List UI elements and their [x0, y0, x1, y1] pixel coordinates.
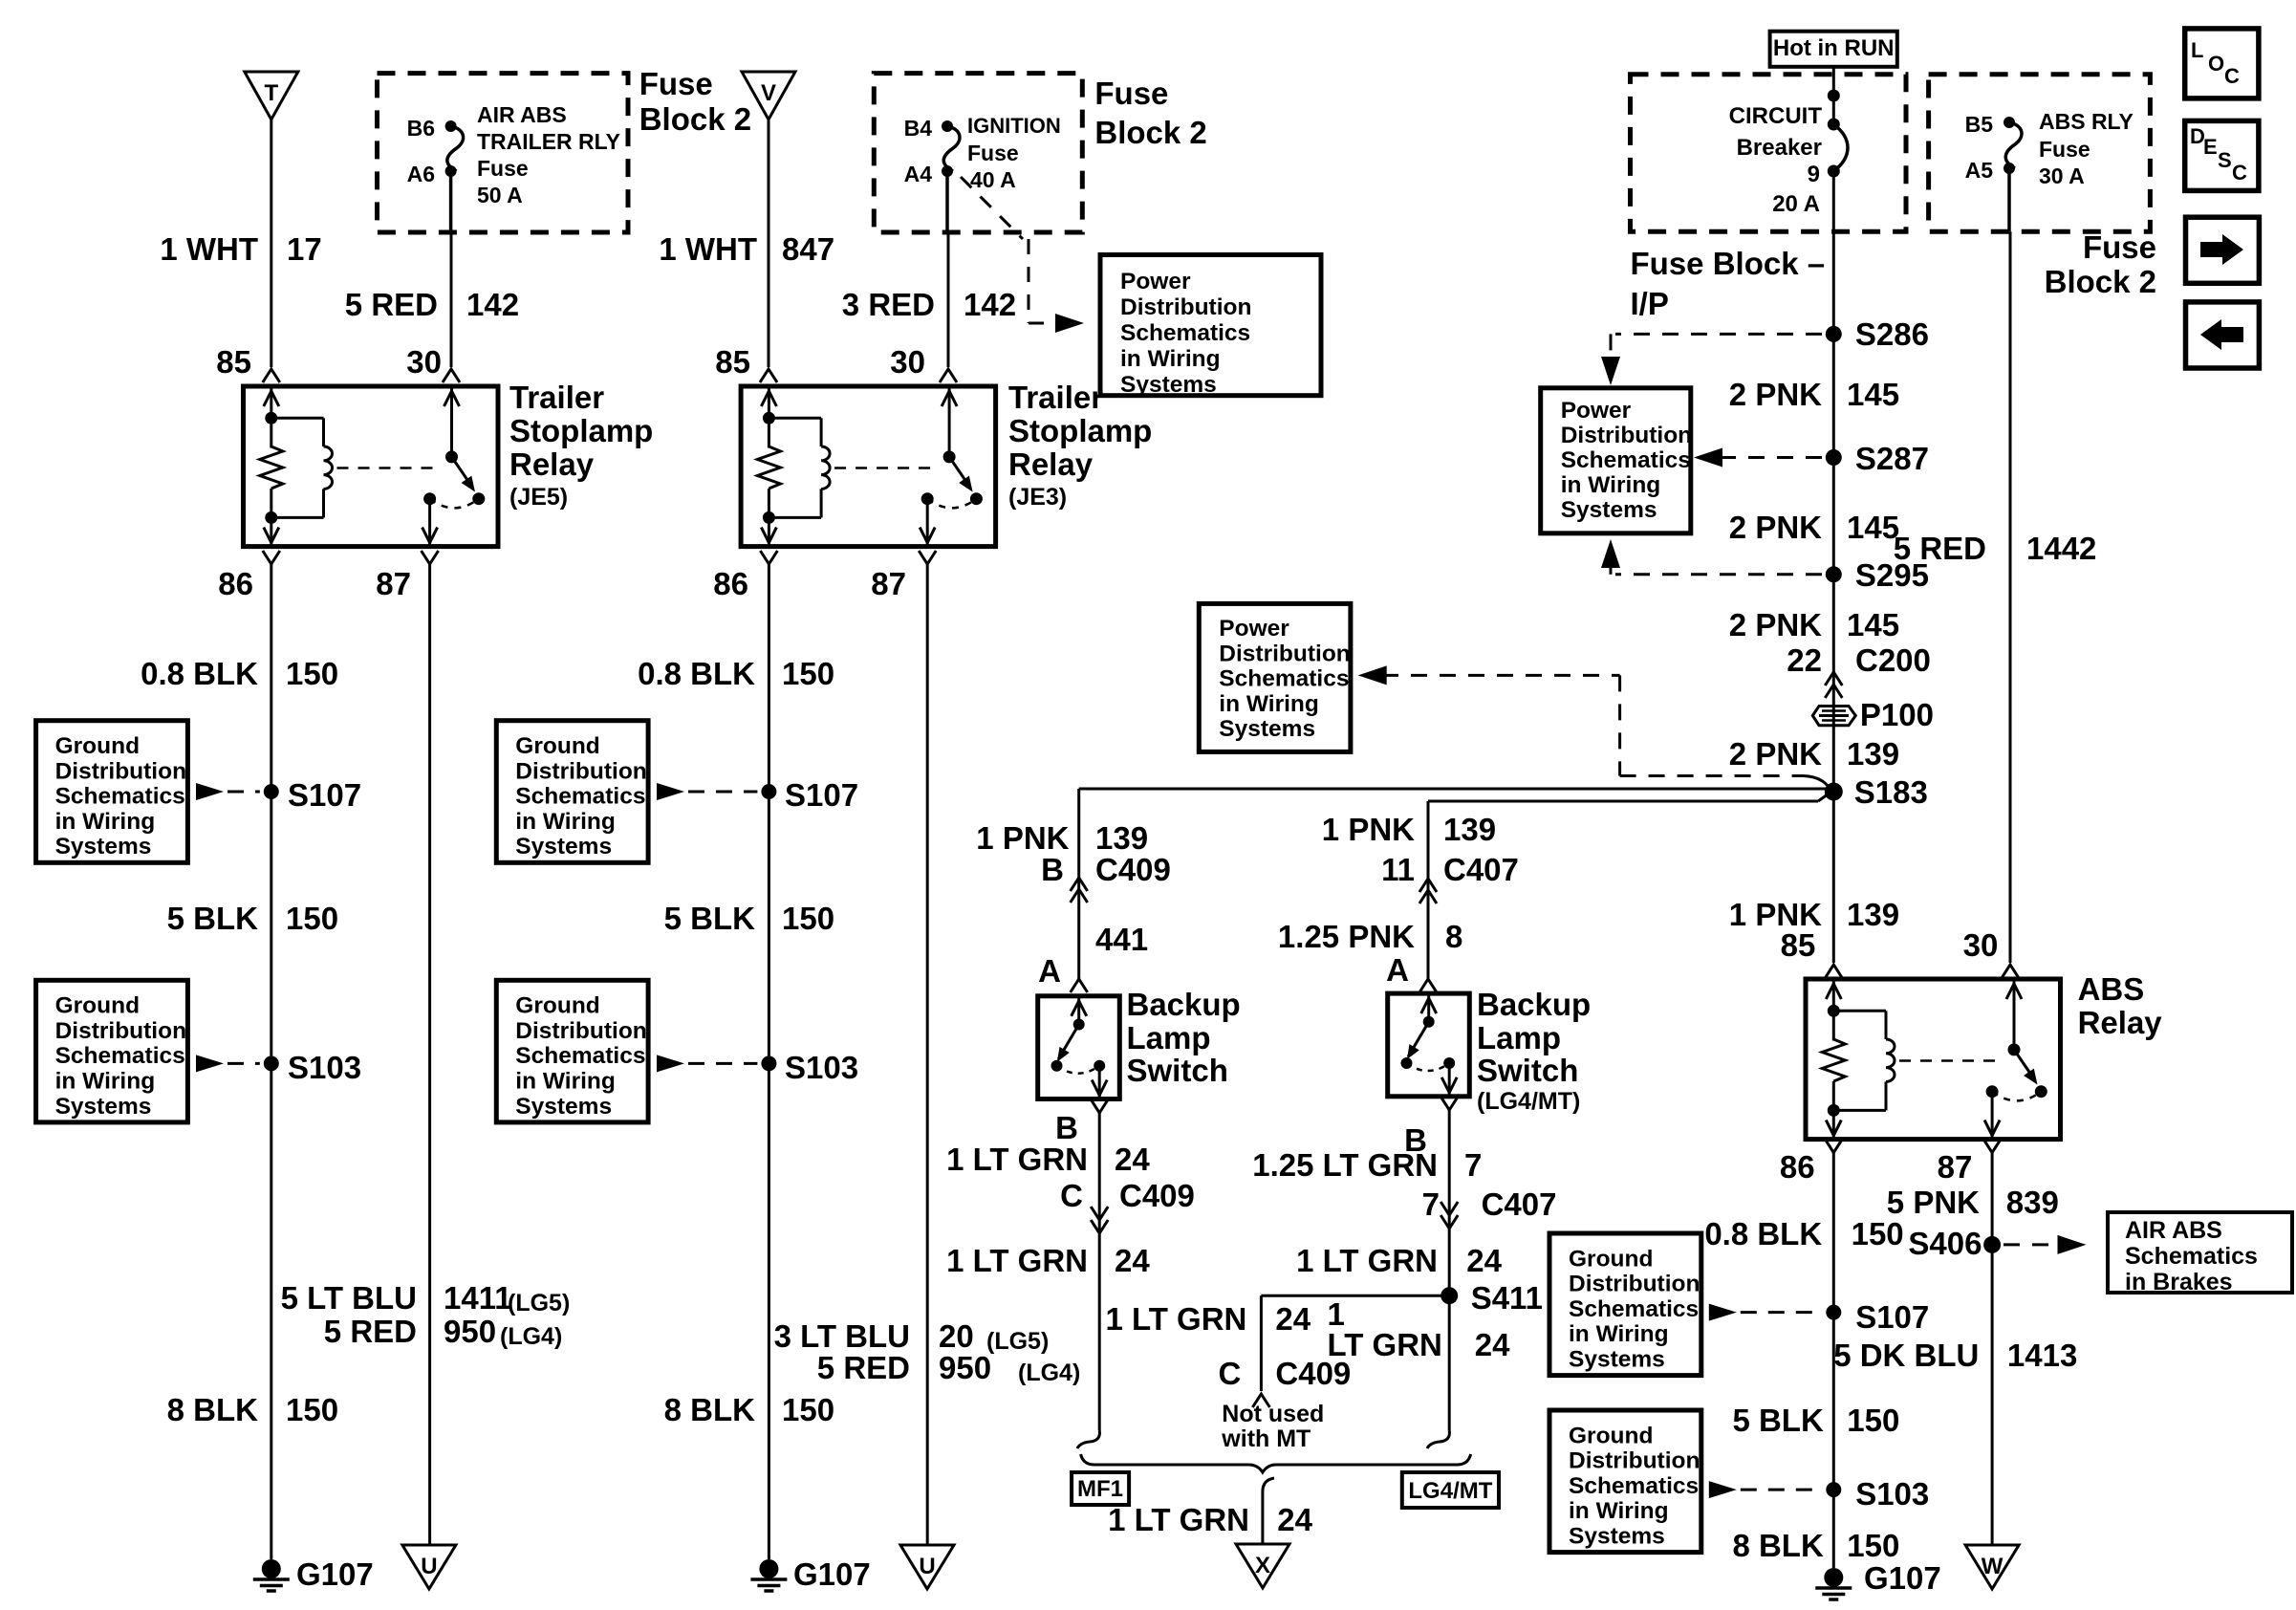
grommet P100 — [1812, 697, 1934, 732]
label Backup Lamp Switch 2 — [1477, 987, 1591, 1115]
label Backup Lamp Switch 1 — [1127, 987, 1241, 1088]
wire ABS pin87 to W — [1983, 1140, 2001, 1544]
svg-text:U: U — [421, 1554, 437, 1579]
svg-text:1.25 LT GRN: 1.25 LT GRN — [1252, 1147, 1438, 1183]
svg-text:(LG4): (LG4) — [500, 1323, 562, 1350]
svg-text:Schematics: Schematics — [1219, 666, 1349, 692]
svg-text:Block 2: Block 2 — [2045, 264, 2156, 299]
wire S411 branch to C409 — [1252, 1295, 1449, 1407]
svg-text:142: 142 — [466, 287, 519, 322]
label 7 C407 — [1422, 1186, 1557, 1222]
dashed ref from ignition fuse — [961, 177, 1084, 333]
fuse AIR ABS TRAILER RLY 50A — [407, 102, 620, 207]
label 0.8 BLK 150 col3 — [638, 656, 834, 691]
svg-text:P100: P100 — [1860, 697, 1934, 732]
svg-text:9: 9 — [1808, 162, 1820, 187]
svg-text:5 LT BLU: 5 LT BLU — [281, 1280, 417, 1316]
label 2 PNK 139 — [1729, 736, 1899, 772]
svg-text:Fuse: Fuse — [639, 66, 713, 101]
label 1.25 LT GRN 7 — [1252, 1147, 1482, 1183]
svg-text:139: 139 — [1847, 736, 1899, 772]
fuse block IP dashed box — [1631, 75, 1907, 232]
svg-text:Fuse: Fuse — [2083, 229, 2156, 265]
label 22 C200 — [1787, 642, 1931, 678]
wire S183 branch to backup switch 1 — [1079, 789, 1830, 979]
label 2 PNK 145 a — [1729, 377, 1899, 412]
connector U left — [402, 1545, 456, 1589]
svg-text:2 PNK: 2 PNK — [1729, 736, 1822, 772]
label 1 LT GRN 24 bls1 lower — [946, 1243, 1150, 1278]
label 30 relay2 — [890, 344, 925, 380]
label B bls2 out — [1404, 1122, 1427, 1158]
svg-text:139: 139 — [1095, 820, 1148, 856]
legend box LOC — [2185, 29, 2259, 98]
svg-text:X: X — [1255, 1553, 1270, 1578]
label 5 RED 1442 — [1894, 531, 2097, 566]
wire relay2 pin86 to G107 — [760, 551, 777, 1559]
svg-text:Breaker: Breaker — [1737, 135, 1822, 161]
svg-text:Schematics: Schematics — [1561, 447, 1691, 473]
label box LG4/MT — [1402, 1472, 1499, 1508]
svg-text:Lamp: Lamp — [1127, 1020, 1211, 1055]
wire ABS fuse to ABS relay pin30 — [2002, 168, 2019, 978]
label 1 PNK 139 right — [1729, 897, 1899, 932]
node S107 col1 — [264, 777, 361, 813]
svg-text:LG4/MT: LG4/MT — [1408, 1478, 1492, 1504]
svg-text:in Wiring: in Wiring — [55, 1069, 156, 1095]
svg-text:AIR ABS: AIR ABS — [477, 102, 567, 127]
label 5 DK BLU 1413 — [1833, 1338, 2077, 1373]
svg-text:1 LT GRN: 1 LT GRN — [1108, 1502, 1249, 1537]
label B C409 bls1 — [1041, 852, 1171, 887]
wire relay2 pin87 to U — [919, 551, 936, 1544]
svg-text:C: C — [1219, 1356, 1242, 1391]
svg-text:L: L — [2191, 38, 2203, 62]
label 2 PNK 145 c — [1729, 607, 1899, 642]
svg-text:Power: Power — [1120, 269, 1191, 294]
svg-text:87: 87 — [871, 566, 906, 601]
label 3 LT BLU 20 LG5 — [774, 1318, 1050, 1355]
svg-text:(LG4): (LG4) — [1018, 1360, 1080, 1386]
node S107 col3 — [761, 777, 858, 813]
svg-text:Schematics: Schematics — [1120, 320, 1250, 346]
svg-text:30: 30 — [890, 344, 925, 380]
svg-text:1413: 1413 — [2007, 1338, 2077, 1373]
fuse block 2 dashed box (mid) — [874, 74, 1082, 232]
svg-text:(LG4/MT): (LG4/MT) — [1477, 1088, 1580, 1115]
svg-text:Ground: Ground — [515, 993, 599, 1019]
svg-text:Stoplamp: Stoplamp — [509, 413, 653, 448]
svg-text:150: 150 — [286, 656, 338, 691]
svg-text:A: A — [1386, 952, 1409, 988]
svg-text:950: 950 — [939, 1350, 991, 1385]
svg-text:87: 87 — [1938, 1149, 1973, 1185]
circuit breaker 9 20A — [1828, 90, 1848, 178]
svg-text:Backup: Backup — [1127, 987, 1241, 1022]
label 1 WHT 847 — [659, 231, 834, 267]
svg-text:Fuse Block –: Fuse Block – — [1631, 246, 1826, 281]
svg-text:S103: S103 — [1855, 1476, 1929, 1512]
wire below backup switch 2 — [1427, 1097, 1458, 1448]
label 8 BLK 150 right — [1732, 1528, 1899, 1563]
svg-text:8 BLK: 8 BLK — [664, 1392, 756, 1427]
svg-text:O: O — [2208, 52, 2224, 76]
svg-text:C: C — [1060, 1178, 1083, 1213]
label box MF1 — [1072, 1472, 1129, 1505]
svg-text:30: 30 — [406, 344, 442, 380]
node S287 — [1826, 441, 1929, 476]
svg-text:ABS RLY: ABS RLY — [2039, 109, 2134, 134]
svg-text:Stoplamp: Stoplamp — [1008, 413, 1152, 448]
ground distribution box 3 — [496, 721, 757, 863]
svg-text:Relay: Relay — [2078, 1005, 2163, 1040]
svg-text:24: 24 — [1275, 1301, 1310, 1337]
svg-text:Not used: Not used — [1222, 1401, 1324, 1427]
svg-text:8 BLK: 8 BLK — [167, 1392, 259, 1427]
svg-text:24: 24 — [1115, 1142, 1150, 1177]
svg-text:441: 441 — [1095, 922, 1148, 957]
label C C409 bls1 — [1060, 1178, 1195, 1213]
wire below backup switch 1 — [1077, 1099, 1108, 1448]
label 86 relay2 — [713, 566, 748, 601]
svg-text:150: 150 — [782, 656, 834, 691]
svg-text:20 A: 20 A — [1772, 191, 1820, 217]
svg-text:A: A — [1038, 953, 1061, 989]
svg-text:Schematics: Schematics — [1569, 1296, 1699, 1322]
svg-text:(JE3): (JE3) — [1008, 484, 1067, 511]
svg-text:G107: G107 — [1864, 1560, 1941, 1596]
svg-text:1 LT GRN: 1 LT GRN — [1296, 1243, 1438, 1278]
svg-text:T: T — [264, 80, 278, 106]
dashed ref S287 — [1694, 448, 1822, 468]
svg-text:22: 22 — [1787, 642, 1822, 678]
svg-text:0.8 BLK: 0.8 BLK — [141, 656, 258, 691]
svg-text:839: 839 — [2006, 1185, 2059, 1220]
svg-text:S183: S183 — [1854, 774, 1928, 810]
label 5 RED 950 LG4 mid — [817, 1350, 1080, 1386]
connector C409 C inline — [1091, 1207, 1108, 1233]
svg-text:in Wiring: in Wiring — [1569, 1498, 1669, 1524]
connector C407 11 inline — [1419, 879, 1437, 903]
svg-text:S: S — [2218, 148, 2232, 172]
label 1 LT GRN 24 bls2 — [1296, 1243, 1503, 1278]
label 30 ABS — [1963, 927, 1999, 963]
svg-text:8: 8 — [1445, 919, 1462, 954]
ground distribution box 4 — [496, 980, 757, 1122]
label Trailer Stoplamp Relay JE5 — [509, 380, 653, 511]
svg-text:S411: S411 — [1471, 1280, 1543, 1316]
node S286 — [1826, 316, 1929, 352]
svg-text:ABS: ABS — [2078, 971, 2145, 1007]
label 5 BLK 150 col3 — [664, 901, 834, 936]
svg-text:in Wiring: in Wiring — [55, 809, 156, 835]
svg-text:C200: C200 — [1855, 642, 1931, 678]
svg-text:1 WHT: 1 WHT — [659, 231, 757, 267]
svg-text:1 WHT: 1 WHT — [160, 231, 258, 267]
svg-text:A5: A5 — [1965, 158, 1994, 183]
backup lamp switch 1 — [1038, 996, 1120, 1099]
label A bls2 — [1386, 952, 1409, 988]
svg-text:5 DK BLU: 5 DK BLU — [1833, 1338, 1979, 1373]
label 5 RED 142 — [345, 287, 519, 322]
label 1.25 PNK 8 — [1278, 919, 1462, 954]
label CIRCUIT Breaker — [1729, 103, 1823, 217]
wire T to relay pin 85 — [263, 120, 280, 382]
svg-text:Systems: Systems — [1561, 497, 1657, 523]
svg-text:30 A: 30 A — [2039, 163, 2085, 188]
svg-text:0.8 BLK: 0.8 BLK — [1704, 1216, 1822, 1251]
svg-text:86: 86 — [713, 566, 748, 601]
svg-text:7: 7 — [1464, 1147, 1482, 1183]
svg-text:S406: S406 — [1908, 1226, 1982, 1261]
svg-text:in Wiring: in Wiring — [1120, 346, 1221, 372]
svg-text:1 PNK: 1 PNK — [1322, 812, 1415, 847]
svg-text:S103: S103 — [288, 1050, 361, 1085]
svg-text:87: 87 — [376, 566, 411, 601]
svg-text:Systems: Systems — [1569, 1347, 1665, 1373]
svg-text:MF1: MF1 — [1077, 1476, 1123, 1502]
svg-text:Distribution: Distribution — [515, 758, 646, 784]
svg-text:S107: S107 — [1855, 1299, 1929, 1335]
svg-text:B5: B5 — [1965, 112, 1994, 137]
svg-text:1411: 1411 — [444, 1280, 512, 1316]
fuse block 2 dashed box (right) — [1929, 75, 2151, 232]
main PNK wire breaker to ABS relay — [1825, 171, 1842, 978]
svg-text:150: 150 — [286, 1392, 338, 1427]
svg-text:S295: S295 — [1855, 557, 1929, 593]
ground distribution box 2 — [36, 980, 260, 1122]
svg-text:S286: S286 — [1855, 316, 1929, 352]
svg-text:40 A: 40 A — [970, 167, 1016, 192]
svg-text:50 A: 50 A — [477, 183, 523, 207]
label Fuse Block 2 (right) — [2045, 229, 2156, 299]
svg-text:3 LT BLU: 3 LT BLU — [774, 1318, 910, 1354]
label 0.8 BLK 150 col1 — [141, 656, 338, 691]
svg-text:145: 145 — [1847, 607, 1899, 642]
power distribution box (center) — [1199, 603, 1351, 751]
svg-text:C407: C407 — [1482, 1186, 1557, 1222]
wire fuse to relay1 pin30 — [443, 171, 460, 382]
label Fuse Block 2 (left) — [639, 66, 751, 137]
label 85 relay1 — [216, 344, 251, 380]
svg-text:1 LT GRN: 1 LT GRN — [1106, 1301, 1247, 1337]
dashed ref to S183 — [1358, 665, 1828, 786]
svg-text:2 PNK: 2 PNK — [1729, 510, 1822, 545]
label Trailer Stoplamp Relay JE3 — [1008, 380, 1152, 511]
svg-text:5 BLK: 5 BLK — [1732, 1403, 1824, 1438]
svg-text:24: 24 — [1466, 1243, 1502, 1278]
svg-text:C409: C409 — [1119, 1178, 1195, 1213]
connector C200 inline — [1825, 672, 1842, 698]
svg-text:Distribution: Distribution — [515, 1018, 646, 1044]
label 1 LT GRN 24 below S411 — [1328, 1296, 1511, 1362]
svg-text:Schematics: Schematics — [2125, 1243, 2258, 1270]
connector chevron A bls2 — [1419, 979, 1437, 992]
svg-text:in Wiring: in Wiring — [1561, 472, 1661, 498]
svg-text:Lamp: Lamp — [1477, 1020, 1561, 1055]
svg-text:Fuse: Fuse — [967, 141, 1019, 165]
svg-text:CIRCUIT: CIRCUIT — [1729, 103, 1823, 129]
svg-text:86: 86 — [218, 566, 253, 601]
label A bls1 — [1038, 953, 1061, 989]
svg-text:S103: S103 — [785, 1050, 858, 1085]
ground G107 left — [253, 1556, 374, 1592]
svg-text:C407: C407 — [1443, 852, 1519, 887]
svg-text:Fuse: Fuse — [1094, 76, 1168, 111]
ground G107 mid — [750, 1556, 870, 1592]
svg-text:Schematics: Schematics — [515, 784, 645, 810]
label Fuse Block 2 (mid) — [1094, 76, 1206, 150]
fuse ABS RLY 30A — [1965, 109, 2134, 188]
svg-text:Distribution: Distribution — [1120, 294, 1251, 320]
svg-text:Trailer: Trailer — [509, 380, 604, 415]
fuse block 2 dashed box (left) — [378, 74, 629, 232]
svg-text:TRAILER RLY: TRAILER RLY — [477, 129, 620, 154]
svg-text:Distribution: Distribution — [1561, 423, 1692, 448]
svg-text:17: 17 — [287, 231, 322, 267]
legend box arrow right — [2186, 217, 2260, 283]
svg-text:2 PNK: 2 PNK — [1729, 377, 1822, 412]
label 1 PNK 139 bls1 — [976, 820, 1148, 856]
svg-text:A4: A4 — [904, 162, 933, 186]
svg-text:Systems: Systems — [1569, 1524, 1665, 1550]
svg-text:Ground: Ground — [55, 733, 140, 759]
svg-text:AIR ABS: AIR ABS — [2125, 1217, 2222, 1244]
svg-text:Systems: Systems — [1120, 372, 1217, 398]
svg-text:145: 145 — [1847, 510, 1899, 545]
svg-text:in Wiring: in Wiring — [515, 809, 616, 835]
wire S183 branch to backup switch 2 — [1428, 794, 1830, 980]
svg-text:S287: S287 — [1855, 441, 1929, 476]
ground distribution box 1 — [36, 721, 260, 863]
svg-text:Ground: Ground — [515, 733, 599, 759]
svg-text:Systems: Systems — [515, 834, 612, 859]
svg-text:2 PNK: 2 PNK — [1729, 607, 1822, 642]
svg-text:Schematics: Schematics — [1569, 1473, 1699, 1499]
svg-text:S107: S107 — [785, 777, 858, 813]
label 5 BLK 150 right — [1732, 1403, 1899, 1438]
connector U mid — [900, 1545, 954, 1589]
svg-text:Fuse: Fuse — [477, 156, 529, 181]
svg-text:Distribution: Distribution — [55, 1018, 186, 1044]
svg-text:1 LT GRN: 1 LT GRN — [946, 1142, 1088, 1177]
svg-text:139: 139 — [1443, 812, 1496, 847]
label ABS Relay — [2078, 971, 2163, 1040]
svg-text:7: 7 — [1422, 1186, 1440, 1222]
label 11 C407 bls2 — [1381, 852, 1519, 887]
svg-text:85: 85 — [1781, 927, 1816, 963]
svg-text:24: 24 — [1115, 1243, 1150, 1278]
svg-text:1 PNK: 1 PNK — [976, 820, 1069, 856]
label Not used with MT — [1221, 1401, 1324, 1452]
svg-text:G107: G107 — [296, 1556, 374, 1592]
connector C409 B inline — [1071, 878, 1088, 903]
svg-text:Systems: Systems — [515, 1094, 612, 1120]
svg-text:150: 150 — [782, 1392, 834, 1427]
label 2 PNK 145 b — [1729, 510, 1899, 545]
legend box arrow left — [2186, 302, 2260, 368]
svg-text:A6: A6 — [407, 162, 435, 186]
svg-text:S107: S107 — [288, 777, 361, 813]
label C C409 branch — [1219, 1356, 1352, 1391]
label 5 BLK 150 col1 — [167, 901, 338, 936]
node S107 right — [1826, 1299, 1929, 1335]
svg-text:Ground: Ground — [1569, 1246, 1653, 1272]
svg-text:B6: B6 — [407, 116, 435, 141]
label box Hot in RUN — [1770, 32, 1897, 67]
label 5 PNK 839 — [1887, 1185, 2059, 1220]
svg-text:Systems: Systems — [55, 834, 152, 859]
svg-text:145: 145 — [1847, 377, 1899, 412]
svg-text:B4: B4 — [904, 116, 933, 141]
wire V to relay2 pin 85 — [760, 120, 777, 382]
power distribution box (mid) — [1100, 255, 1321, 399]
label 8 BLK 150 col3 — [664, 1392, 834, 1427]
connector chevron A bls1 — [1071, 979, 1088, 992]
svg-text:20: 20 — [939, 1318, 974, 1354]
svg-text:5 RED: 5 RED — [817, 1350, 910, 1385]
label 85 ABS — [1781, 927, 1816, 963]
node S411 — [1440, 1280, 1543, 1316]
svg-text:E: E — [2203, 135, 2218, 159]
label 0.8 BLK 150 right — [1704, 1216, 1903, 1251]
wire ABS pin86 to G107 — [1825, 1140, 1842, 1568]
svg-text:0.8 BLK: 0.8 BLK — [638, 656, 755, 691]
node S103 col3 — [761, 1050, 858, 1085]
svg-text:Relay: Relay — [1008, 446, 1094, 482]
label 1 LT GRN 24 branch — [1106, 1301, 1311, 1337]
label 87 relay2 — [871, 566, 906, 601]
svg-text:in Wiring: in Wiring — [1569, 1321, 1669, 1347]
label B bls1 out — [1055, 1110, 1078, 1145]
svg-text:in Wiring: in Wiring — [1219, 691, 1319, 717]
legend box DESC — [2185, 120, 2259, 190]
svg-text:Power: Power — [1219, 616, 1289, 642]
svg-text:Schematics: Schematics — [515, 1043, 645, 1069]
svg-text:Schematics: Schematics — [55, 1043, 185, 1069]
svg-text:B: B — [1041, 852, 1064, 887]
ABS relay — [1806, 979, 2061, 1140]
svg-text:Ground: Ground — [55, 993, 140, 1019]
svg-text:847: 847 — [782, 231, 834, 267]
svg-text:C409: C409 — [1095, 852, 1171, 887]
dashed ref S286 — [1601, 334, 1822, 385]
svg-text:B: B — [1055, 1110, 1078, 1145]
svg-text:5 PNK: 5 PNK — [1887, 1185, 1980, 1220]
node S406 — [1908, 1226, 2001, 1261]
svg-text:U: U — [919, 1554, 935, 1579]
label 5 RED 950 LG4 — [324, 1314, 562, 1350]
connector C407 7 inline — [1440, 1202, 1458, 1229]
svg-text:Trailer: Trailer — [1008, 380, 1103, 415]
dashed ref S406 to AIR ABS — [2004, 1235, 2087, 1254]
ground distribution box 6 — [1549, 1410, 1822, 1553]
svg-text:5 RED: 5 RED — [345, 287, 438, 322]
svg-text:C: C — [2224, 64, 2240, 88]
connector X — [1236, 1544, 1289, 1588]
svg-text:24: 24 — [1277, 1502, 1312, 1537]
svg-text:30: 30 — [1963, 927, 1999, 963]
svg-text:IGNITION: IGNITION — [967, 114, 1061, 138]
dashed ref S295 — [1601, 539, 1822, 575]
label 86 relay1 — [218, 566, 253, 601]
trailer stoplamp relay JE5 — [244, 386, 499, 547]
label 441 — [1095, 922, 1148, 957]
wire relay1 pin87 to U — [422, 551, 439, 1544]
svg-text:Hot in RUN: Hot in RUN — [1773, 35, 1895, 61]
node S183 — [1825, 774, 1928, 810]
svg-text:Distribution: Distribution — [1569, 1272, 1700, 1297]
